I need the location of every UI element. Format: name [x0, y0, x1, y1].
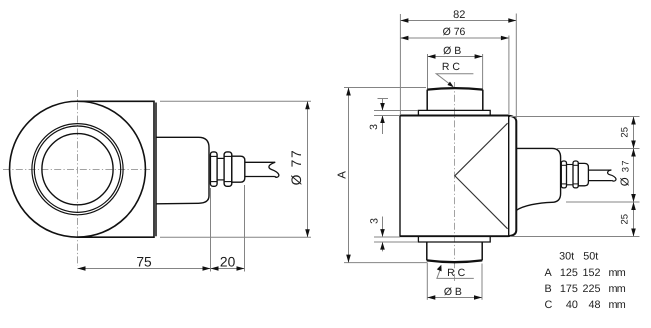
cable (right view)	[588, 169, 611, 171]
gland ring 2 (left view)	[224, 152, 232, 186]
dim ØB bottom line	[427, 297, 482, 299]
gland ring 1 (right view)	[561, 161, 566, 188]
gland body (right view)	[578, 163, 588, 185]
chevron weld lines	[455, 123, 508, 229]
svg-text:82: 82	[453, 9, 465, 21]
svg-text:175: 175	[560, 283, 578, 295]
svg-text:40: 40	[566, 299, 578, 311]
dim ØB bottom extensions	[426, 263, 428, 300]
svg-text:Ø 76: Ø 76	[443, 26, 466, 38]
top block spherical surface	[427, 88, 483, 89]
connector boss (left view)	[156, 137, 209, 204]
gland mid cylinder (left view)	[217, 157, 224, 159]
svg-text:mm: mm	[609, 283, 626, 295]
connector boss (right view)	[516, 148, 560, 210]
svg-text:75: 75	[136, 255, 152, 270]
bottom block spherical surface	[427, 260, 482, 262]
dim line 75/20	[78, 268, 245, 270]
gland ring 2 (right view)	[573, 161, 578, 188]
top block	[427, 90, 483, 111]
dim 75 extension (gland start)	[210, 188, 212, 272]
bore circle	[42, 134, 113, 205]
bottom block	[427, 242, 482, 260]
svg-text:152: 152	[582, 267, 600, 279]
svg-text:25: 25	[619, 214, 630, 225]
svg-text:30t: 30t	[559, 251, 574, 263]
body plate (left view)	[78, 101, 155, 237]
svg-text:B: B	[545, 283, 552, 295]
svg-text:R C: R C	[447, 267, 466, 279]
gland ring 1 (left view)	[210, 152, 217, 186]
leader R C top lines	[436, 74, 473, 84]
svg-text:48: 48	[588, 299, 600, 311]
ring circle inner	[34, 126, 120, 212]
dim 82 line	[400, 20, 516, 22]
gland body (left view)	[232, 156, 245, 182]
svg-text:A: A	[545, 267, 553, 279]
svg-text:3: 3	[369, 218, 381, 224]
dim 82 extensions	[399, 14, 401, 114]
main body (right view)	[400, 116, 509, 237]
svg-text:25: 25	[619, 127, 630, 138]
cable (left view)	[245, 161, 275, 163]
svg-text:Ø 37: Ø 37	[620, 159, 632, 186]
gland mid cylinder (right view)	[567, 164, 574, 166]
dim 20 extension (gland end)	[244, 185, 246, 272]
leader R C bottom lines	[437, 268, 474, 279]
ring edge line (left view)	[155, 103, 157, 237]
dim ØB line	[428, 56, 483, 58]
dim Ø77 extension bottom	[160, 236, 311, 238]
svg-text:A: A	[337, 171, 349, 179]
svg-text:3: 3	[368, 124, 380, 130]
dim Ø76 line	[400, 37, 509, 39]
bottom flange	[418, 236, 490, 242]
svg-text:C: C	[545, 299, 553, 311]
ring circle outer	[32, 124, 123, 215]
dim line right column	[633, 117, 635, 237]
right dims extension boss top	[557, 148, 640, 150]
right dims extension boss bottom	[566, 201, 640, 203]
cable break (right view)	[608, 170, 616, 181]
dim A extensions	[344, 87, 426, 89]
cable break (left view)	[269, 162, 279, 177]
right dims extension body bottom	[510, 236, 640, 238]
dim 3 top extensions	[374, 110, 418, 112]
svg-text:mm: mm	[609, 299, 626, 311]
svg-text:225: 225	[582, 283, 600, 295]
centerline vertical (right view)	[454, 82, 456, 281]
svg-text:R C: R C	[442, 61, 461, 73]
centerline horizontal (left view)	[3, 169, 150, 171]
ring edge (right view)	[509, 116, 517, 236]
svg-text:mm: mm	[609, 267, 626, 279]
svg-text:50t: 50t	[583, 251, 598, 263]
svg-text:Ø 77: Ø 77	[289, 149, 304, 186]
dim A line	[348, 88, 350, 263]
dim 3 top stub	[378, 98, 389, 100]
dim 3 bottom line	[382, 217, 384, 237]
dim 3 top line	[382, 99, 384, 111]
centerline vertical (left view)	[77, 90, 79, 266]
dim Ø76 extension	[508, 36, 510, 115]
dim Ø77 line	[307, 101, 309, 237]
dim ØB extensions	[427, 54, 429, 89]
svg-text:20: 20	[220, 255, 236, 270]
dim Ø77 extension top	[160, 100, 311, 102]
dim 3 bottom extensions	[374, 236, 400, 238]
outer circle	[10, 101, 146, 237]
svg-text:Ø B: Ø B	[443, 45, 461, 57]
svg-text:125: 125	[560, 267, 578, 279]
right dims extension body top	[510, 116, 640, 118]
svg-text:Ø B: Ø B	[444, 286, 462, 298]
top flange	[418, 110, 490, 115]
